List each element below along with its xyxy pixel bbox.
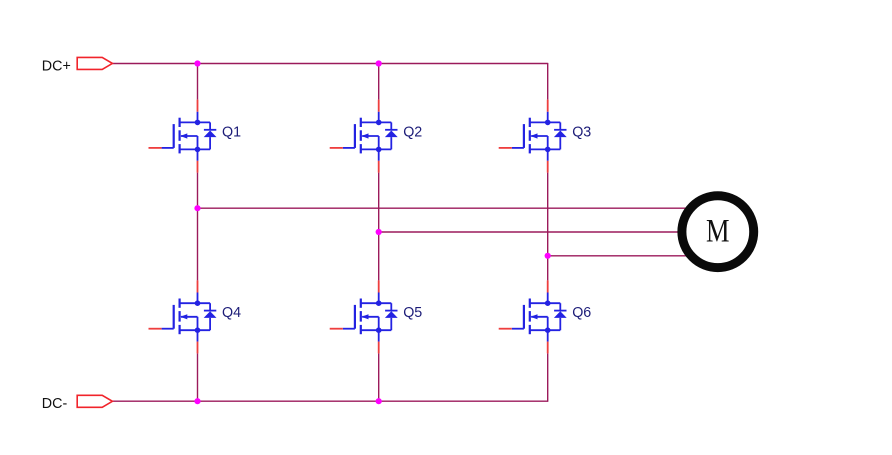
transistor Q1 <box>149 100 217 173</box>
transistor Q4 <box>149 280 217 353</box>
wire leg3 top (rail corner to Q3 drain) <box>547 63 549 100</box>
junction node C (phase C tap) <box>545 253 551 259</box>
transistor Q2 <box>330 100 398 173</box>
wire DC+ top rail <box>112 63 547 65</box>
svg-text:Q5: Q5 <box>403 305 422 321</box>
transistor Q6 <box>499 280 567 353</box>
svg-text:Q1: Q1 <box>222 124 241 140</box>
junction top rail / leg1 <box>194 60 200 66</box>
wire leg1 bottom (Q4 source to rail) <box>197 353 199 401</box>
junction top rail / leg2 <box>376 60 382 66</box>
wire leg3 mid (Q3 source to Q6 drain, node C) <box>547 173 549 281</box>
svg-text:Q2: Q2 <box>403 124 422 140</box>
svg-text:DC+: DC+ <box>42 58 71 74</box>
wire DC- bottom rail <box>112 400 547 402</box>
transistor Q3 <box>499 100 567 173</box>
junction bottom rail / leg2 <box>376 398 382 404</box>
wire phase B to motor <box>379 231 683 233</box>
junction node A (phase A tap) <box>194 205 200 211</box>
wire leg2 top (rail to Q2 drain) <box>378 64 380 100</box>
transistor Q5 <box>330 280 398 353</box>
wire leg3 bottom (Q6 source to rail corner) <box>547 353 549 401</box>
svg-text:Q3: Q3 <box>572 124 591 140</box>
connector DC+ <box>77 57 112 69</box>
connector DC- <box>77 395 112 407</box>
wire phase A to motor <box>198 207 692 209</box>
wire phase C to motor <box>548 255 691 257</box>
svg-text:Q6: Q6 <box>572 305 591 321</box>
wire leg1 mid (Q1 source to Q4 drain, node A) <box>197 173 199 281</box>
junction node B (phase B tap) <box>376 229 382 235</box>
motor M <box>682 196 754 268</box>
wire leg2 mid (Q2 source to Q5 drain, node B) <box>378 173 380 281</box>
junction bottom rail / leg1 <box>194 398 200 404</box>
svg-text:M: M <box>706 214 730 250</box>
svg-text:Q4: Q4 <box>222 305 241 321</box>
svg-text:DC-: DC- <box>42 396 68 412</box>
wire leg2 bottom (Q5 source to rail) <box>378 353 380 401</box>
wire leg1 top (rail to Q1 drain) <box>197 64 199 100</box>
